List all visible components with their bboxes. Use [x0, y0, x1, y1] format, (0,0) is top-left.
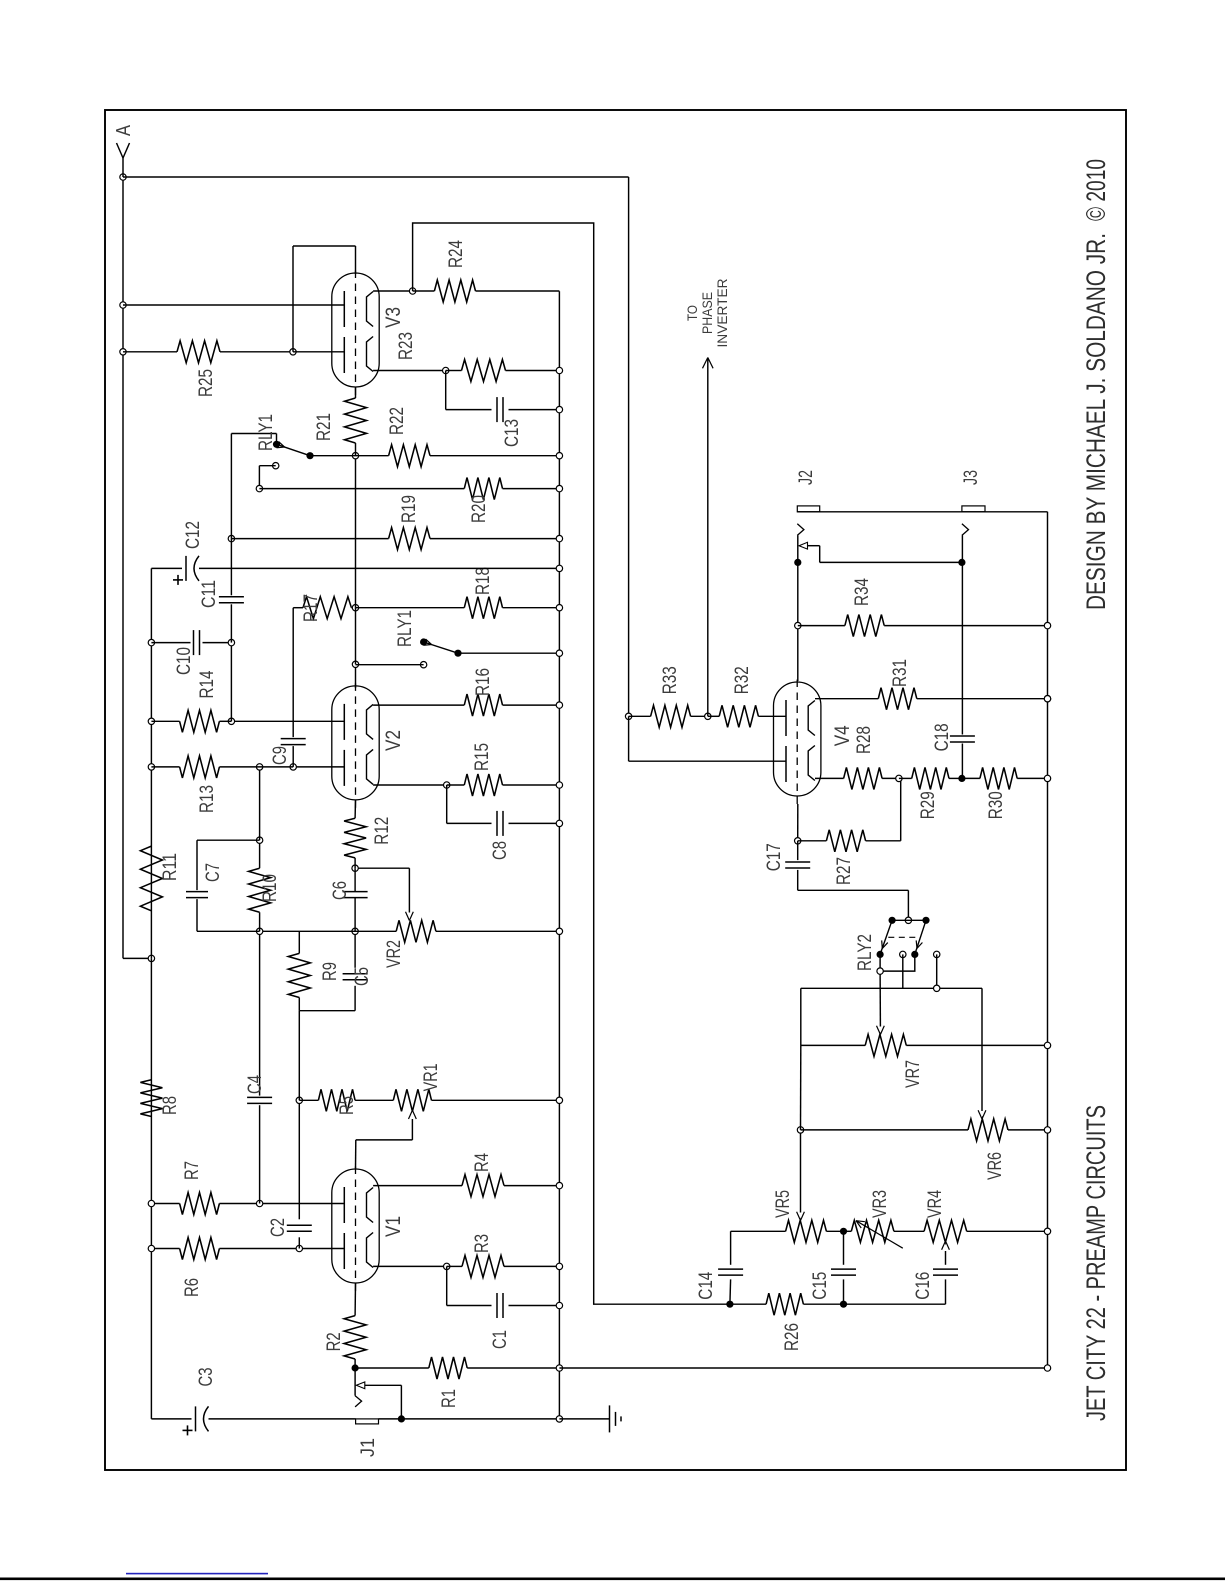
RLY1a pivot [273, 441, 280, 448]
node VR6 x bottom bus [1044, 1127, 1050, 1133]
node R24 / tone feed [409, 288, 415, 294]
RLY2 pivot 2 [922, 917, 929, 924]
VR3 rheostat arrow [856, 1221, 903, 1249]
potentiometer VR2 [396, 920, 436, 942]
resistor R23 (V3A cathode) [462, 360, 506, 382]
wire: C17 to RLY2 feed [798, 889, 909, 891]
V3B grid tie [292, 246, 294, 352]
capacitor C8 (cathode bypass) [496, 811, 498, 836]
wire: V1B grid to VR1 wiper [355, 1140, 357, 1169]
potentiometer VR3 (mid) [851, 1220, 894, 1242]
wire: V2A cathode [373, 784, 447, 786]
wire: ground link to bottom bus [559, 1367, 1047, 1369]
RLY1b arrow [426, 639, 432, 644]
wire: RLY1a to grid node [310, 455, 356, 457]
resistor R29 [912, 767, 949, 789]
wire: J3 tip line [961, 744, 963, 779]
wire: A rail to R33 [628, 177, 630, 716]
resistor R18 [356, 607, 465, 609]
svg-text:V4: V4 [831, 725, 854, 746]
wire: V4B grid to J2 tip [797, 535, 799, 681]
node R34 x bottom bus [1044, 622, 1050, 628]
node R20 x ground [556, 485, 562, 491]
wire: R27 to R28/R29 node [900, 778, 902, 840]
node left corner link x bottom bus [1044, 1365, 1050, 1371]
wire: B+ sub-rail right part [150, 568, 152, 958]
triode V1 [332, 1169, 379, 1283]
node R4 x ground [556, 1182, 562, 1188]
wire: RLY2 t1-t3 link [880, 954, 915, 971]
wire: J1 contact to ground [365, 1384, 402, 1386]
svg-text:J2: J2 [796, 470, 817, 485]
svg-text:R15: R15 [472, 743, 493, 771]
wire: bottom ground bus [1047, 512, 1049, 1368]
svg-text:R27: R27 [834, 857, 855, 885]
resistor R27 [798, 840, 827, 842]
node V3B plate x A rail [120, 302, 126, 308]
svg-text:INVERTER: INVERTER [714, 279, 730, 348]
potentiometer VR4 (bass) [924, 1220, 967, 1242]
wire: R17 top [293, 607, 303, 609]
svg-text:C18: C18 [932, 723, 953, 751]
RLY2 common contact [905, 917, 911, 923]
node R20 top [256, 485, 262, 491]
ground symbol [609, 1405, 611, 1432]
svg-text:V2: V2 [382, 730, 405, 751]
resistor R6 [180, 1238, 220, 1260]
junction C14/R26 [726, 1301, 733, 1308]
node R16 x ground [556, 702, 562, 708]
svg-text:R29: R29 [918, 791, 939, 819]
svg-text:R14: R14 [197, 670, 218, 698]
resistor R2 [344, 1316, 366, 1359]
svg-text:R9: R9 [320, 962, 341, 981]
wire: RLY2 feed [907, 890, 909, 920]
svg-text:C7: C7 [203, 863, 224, 882]
svg-text:C3: C3 [196, 1368, 217, 1387]
svg-text:C6: C6 [330, 881, 351, 900]
svg-text:R7: R7 [182, 1161, 203, 1180]
resistor R22 [356, 455, 389, 457]
svg-text:R26: R26 [782, 1323, 803, 1351]
wire: V4A cathode [815, 777, 844, 779]
svg-text:R34: R34 [852, 578, 873, 606]
RLY1b blade [424, 642, 458, 653]
svg-text:R10: R10 [260, 874, 281, 902]
svg-text:A: A [113, 124, 135, 136]
resistor R32 [708, 715, 719, 717]
svg-text:C8: C8 [490, 841, 511, 860]
svg-text:R17: R17 [301, 594, 322, 622]
svg-text:VR1: VR1 [421, 1063, 442, 1091]
svg-text:PHASE: PHASE [699, 292, 715, 334]
junction J2 NC [794, 559, 801, 566]
RLY2 blade 2 [915, 920, 926, 954]
node C10 x C11 line [228, 639, 234, 645]
junction R29/R30/C18/J3tip [958, 775, 965, 782]
resistor R33 [629, 715, 651, 717]
svg-text:C13: C13 [502, 419, 523, 447]
node R6 x rail [148, 1245, 154, 1251]
node (dup R31) [1044, 696, 1050, 702]
svg-text:R20: R20 [469, 495, 490, 523]
wire: R9/C5 left corner [299, 1010, 355, 1012]
node VR7 x bottom bus [1044, 1042, 1050, 1048]
svg-text:R16: R16 [473, 668, 494, 696]
wire: C13 branch [445, 371, 447, 410]
capacitor C12 (filter electrolytic) [151, 567, 182, 569]
svg-text:R31: R31 [890, 659, 911, 687]
wire: R32 to V4B plate [758, 715, 786, 717]
wire/arrow to phase inverter [707, 358, 709, 717]
svg-text:JET CITY 22 - PREAMP CIRCUITS: JET CITY 22 - PREAMP CIRCUITS [1081, 1105, 1111, 1421]
node R21/R22/RLY1a [352, 452, 358, 458]
node rail join [148, 955, 154, 961]
node R33 top [625, 713, 631, 719]
svg-text:C2: C2 [268, 1218, 289, 1237]
svg-text:R28: R28 [854, 726, 875, 754]
svg-text:C10: C10 [174, 647, 195, 675]
wire: RLY2 t2 out [902, 954, 904, 988]
node R1 x ground bus [556, 1365, 562, 1371]
RLY2 contact t2 [900, 951, 906, 957]
svg-text:R11: R11 [160, 853, 181, 881]
capacitor C7 (bypass over R10) [197, 930, 260, 932]
V1B plate lead [219, 1203, 344, 1205]
svg-text:V3: V3 [382, 307, 405, 328]
svg-text:© 2010: © 2010 [1081, 159, 1111, 221]
resistor R26 [730, 1303, 766, 1305]
wire: C5 line [354, 986, 356, 1011]
resistor R20 [259, 488, 464, 490]
svg-text:VR6: VR6 [985, 1152, 1006, 1180]
node VR1 x ground [556, 1097, 562, 1103]
svg-text:C9: C9 [270, 746, 291, 765]
resistor R3 (V1A cathode) [462, 1255, 504, 1277]
wire: RLY1b NC to grid line [356, 664, 424, 666]
svg-text:VR2: VR2 [384, 940, 405, 968]
VR5 wiper arrow [801, 1212, 805, 1221]
jack J1 input [356, 1419, 379, 1424]
wire: C6 line [354, 898, 356, 931]
node R7/C4 [256, 1200, 262, 1206]
svg-text:C12: C12 [183, 521, 204, 549]
wire: RLY2 to VR6 wiper [937, 987, 982, 989]
resistor R7 (V1B plate load) [180, 1193, 220, 1215]
node chain x R13 column [256, 764, 262, 770]
node R12/C6 [352, 865, 358, 871]
resistor R15 (V2A cathode) [464, 774, 502, 796]
RLY2 blade2 arrow [917, 943, 922, 949]
junction R26/C15 [840, 1301, 847, 1308]
svg-text:C5: C5 [352, 967, 373, 986]
J2 shorting contact arrow [799, 542, 808, 549]
svg-text:R21: R21 [314, 413, 335, 441]
resistor R24 (CF load) [434, 280, 475, 302]
node R3 x ground [556, 1263, 562, 1269]
wire: V3B cathode [373, 290, 413, 292]
capacitor C4 [247, 1102, 272, 1104]
node C9 x R13 column [290, 764, 296, 770]
node R13 x rail [148, 764, 154, 770]
VR3 arrow head [856, 1221, 861, 1228]
page footer scan line [0, 1578, 1225, 1581]
wire to net-A arrow [122, 158, 124, 177]
RLY1b throw dot [454, 650, 461, 657]
node C8 x ground [556, 820, 562, 826]
junction dot J1 sleeve [398, 1415, 405, 1422]
node R19 top [228, 535, 234, 541]
capacitor C6 [343, 897, 368, 899]
V2A plate column R13 [293, 766, 344, 768]
node R19 x ground [556, 535, 562, 541]
RLY1b pivot [420, 638, 427, 645]
svg-text:C17: C17 [764, 843, 785, 871]
svg-text:J1: J1 [358, 1438, 379, 1457]
svg-text:R6: R6 [182, 1278, 203, 1297]
capacitor C1 (cathode bypass) [496, 1293, 498, 1318]
wire: V4A grid [797, 804, 799, 841]
resistor R2 (grid stopper V1A) [354, 1359, 356, 1368]
svg-text:R19: R19 [399, 495, 420, 523]
resistor R17 [303, 597, 351, 619]
node R25 x A rail [120, 349, 126, 355]
wire: main ground bus [558, 291, 560, 1419]
svg-text:R23: R23 [396, 332, 417, 360]
node R7 x rail [148, 1200, 154, 1206]
border frame [105, 110, 1126, 1470]
capacitor C5 [343, 979, 368, 981]
node R30 x bottom bus [1044, 775, 1050, 781]
node R14 x rail [148, 718, 154, 724]
svg-text:RLY1: RLY1 [395, 610, 416, 647]
svg-text:R22: R22 [387, 407, 408, 435]
RLY2 contact t3 [911, 951, 918, 958]
svg-text:R3: R3 [472, 1234, 493, 1253]
wire: RLY1b to ground [458, 652, 559, 654]
wire: wiper line to VR7 [800, 1045, 802, 1130]
wire: V3A cathode [373, 370, 446, 372]
node V1A plate / C2 [296, 1245, 302, 1251]
RLY2 pivot 1 [889, 917, 896, 924]
svg-text:C1: C1 [490, 1330, 511, 1349]
resistor R4 (V1B cathode) [462, 1175, 504, 1197]
node R17/R18 x grid line [352, 605, 358, 611]
RLY2 blade1 arrow [882, 943, 888, 949]
net flag A arrow [117, 143, 124, 158]
node R23 x ground [556, 367, 562, 373]
node RLY2 out B [934, 985, 940, 991]
svg-text:R32: R32 [732, 666, 753, 694]
resistor R16 [464, 694, 502, 716]
svg-text:VR4: VR4 [925, 1190, 946, 1218]
svg-text:C11: C11 [199, 580, 220, 608]
node VR4 x bottom bus [1044, 1228, 1050, 1234]
capacitor C15 (mid) [843, 1279, 845, 1304]
junction VR5/VR3/C15 [840, 1228, 847, 1235]
svg-text:C14: C14 [696, 1271, 717, 1299]
svg-text:J3: J3 [961, 470, 982, 485]
wire: B+ rail A (top) [122, 177, 124, 958]
wire: C1 branch [446, 1266, 448, 1305]
node C4/R10 x VR2 col [256, 928, 262, 934]
RLY1b NC contact [420, 662, 426, 668]
svg-text:V1: V1 [382, 1216, 405, 1237]
potentiometer VR6 (master) [801, 1129, 969, 1131]
capacitor C18 [950, 741, 975, 743]
svg-text:R8: R8 [160, 1096, 181, 1115]
node C10 x rail [148, 639, 154, 645]
wire: RLY2 select column [801, 987, 937, 989]
svg-text:R5: R5 [337, 1096, 358, 1115]
capacitor C13 [496, 397, 498, 422]
wire: C4 line [259, 1105, 261, 1203]
svg-text:VR3: VR3 [870, 1190, 891, 1218]
node V4A grid / C17 / R27 [795, 838, 801, 844]
node C12 x ground [556, 565, 562, 571]
resistor R11 [140, 846, 162, 911]
wire: VR2 wiper to R12 node [355, 867, 409, 869]
wire: rail A to B+ sub-rail [123, 957, 151, 959]
J1 tip contact [355, 1396, 362, 1407]
arrow to phase inverter [703, 358, 708, 369]
RLY2 contact t4 [934, 951, 940, 957]
svg-text:R18: R18 [473, 567, 494, 595]
node ground stem x bus [556, 1416, 562, 1422]
node RLY2 out A [877, 968, 883, 974]
svg-text:R4: R4 [472, 1153, 493, 1172]
node R15/C8 [444, 782, 450, 788]
VR1 gain pot line [299, 1099, 318, 1101]
footer blue link line [126, 1573, 268, 1575]
resistor R9 [288, 953, 310, 997]
resistor R8 [140, 1080, 162, 1117]
node R23/C13 [443, 367, 449, 373]
node R18 x ground [556, 605, 562, 611]
VR7 wiper arrow [880, 1026, 884, 1035]
svg-text:TO: TO [684, 305, 700, 321]
wire: C11 line left [230, 643, 232, 722]
node C5/C6 x VR2 column [352, 928, 358, 934]
wire: V1B cathode [373, 1185, 462, 1187]
node R34 x J2 tip [795, 622, 801, 628]
node V2B plate / C11 line [228, 718, 234, 724]
J1 shorting contact arrow [356, 1382, 365, 1389]
VR2 wiper arrow [409, 912, 413, 921]
resistor R28 [844, 767, 883, 789]
triode V3 [332, 273, 379, 387]
capacitor C2 (coupling) [287, 1230, 312, 1232]
node R25/V3B grid [290, 349, 296, 355]
RLY2 blade 1 [880, 920, 892, 954]
node VR2 x ground [556, 928, 562, 934]
svg-text:R12: R12 [372, 817, 393, 845]
node R28/R29/R27 [896, 775, 902, 781]
svg-text:RLY2: RLY2 [855, 934, 876, 971]
potentiometer VR5 (treble) [731, 1230, 786, 1232]
svg-text:C4: C4 [245, 1075, 266, 1094]
wire: V4B cathode [815, 698, 878, 700]
resistor R14 (V2B plate load) [180, 710, 220, 732]
wire: C8 branch [446, 785, 448, 823]
node R10/C7 right [256, 837, 262, 843]
RLY2 contact t1 [877, 951, 884, 958]
svg-text:RLY1: RLY1 [256, 414, 277, 451]
resistor R34 [798, 625, 845, 627]
capacitor C10 [151, 642, 190, 644]
resistor R21 (V3 grid stopper) [345, 398, 367, 443]
wire: B+ sub-rail left part [150, 958, 152, 1419]
svg-text:R1: R1 [439, 1389, 460, 1408]
J3 tip contact [962, 524, 969, 536]
node R33/R32 to PI [705, 713, 711, 719]
node R22 x ground [556, 452, 562, 458]
triode V4 [774, 682, 821, 796]
V1A plate lead [219, 1248, 344, 1250]
RLY2 bar [892, 919, 926, 921]
node grid line / RLY1b throw [352, 661, 358, 667]
V2B plate column R14 [231, 720, 344, 722]
resistor R12 (V2A grid stopper) [344, 818, 366, 858]
VR6 wiper arrow [982, 1110, 986, 1119]
capacitor C14 (treble) [729, 1279, 732, 1304]
resistor R10 [249, 868, 271, 912]
svg-text:C15: C15 [810, 1272, 831, 1300]
RLY1a arrow [279, 442, 285, 447]
svg-text:VR5: VR5 [773, 1190, 794, 1218]
node A junction [120, 174, 126, 180]
wire: R24 to ground bus end [476, 290, 560, 292]
node C13 x ground [556, 406, 562, 412]
node R15 x ground [556, 782, 562, 788]
wire: RLY1a NC to R20 [259, 465, 275, 467]
resistor R5 [318, 1089, 355, 1111]
capacitor C3 (filter electrolytic) [151, 1418, 191, 1420]
resistor R30 [980, 767, 1017, 789]
capacitor C9 (plate-grid) [292, 746, 294, 767]
svg-text:VR7: VR7 [903, 1060, 924, 1088]
resistor R1 (input load) [355, 1367, 429, 1369]
wire: cathode follower to tone stack [413, 223, 730, 1304]
junction N1 (R1/R2) [352, 1364, 359, 1371]
wire: V2B grid to switch node [355, 664, 357, 688]
svg-text:DESIGN BY MICHAEL J. SOLDANO J: DESIGN BY MICHAEL J. SOLDANO JR. [1081, 233, 1111, 610]
RLY1a blade [277, 444, 311, 455]
RLY1a throw dot [306, 452, 313, 459]
resistor R1 [429, 1357, 467, 1379]
wire: V4A plate direct B+ [629, 760, 786, 762]
svg-text:R24: R24 [446, 240, 467, 268]
capacitor C17 [797, 841, 799, 860]
svg-text:R2: R2 [324, 1332, 345, 1351]
svg-text:C16: C16 [913, 1272, 934, 1300]
wire: ground stem [379, 1418, 560, 1420]
triode V2 [332, 686, 379, 800]
wire: RLY2 t4 out [936, 954, 938, 988]
wire: V1A cathode [373, 1265, 447, 1267]
node C1 x ground [556, 1302, 562, 1308]
wire: RLY1a pivot feed [276, 434, 278, 445]
node VR6 top x wiper line [797, 1127, 803, 1133]
svg-text:R33: R33 [660, 666, 681, 694]
J2 tip contact [797, 524, 804, 536]
svg-text:R30: R30 [986, 791, 1007, 819]
junction J3 tip x J2 NC [958, 559, 965, 566]
svg-text:R13: R13 [197, 785, 218, 813]
VR4 wiper arrow [942, 1241, 946, 1250]
VR2 crunch pot column [260, 930, 397, 932]
node C2 line x VR1 line [296, 1097, 302, 1103]
